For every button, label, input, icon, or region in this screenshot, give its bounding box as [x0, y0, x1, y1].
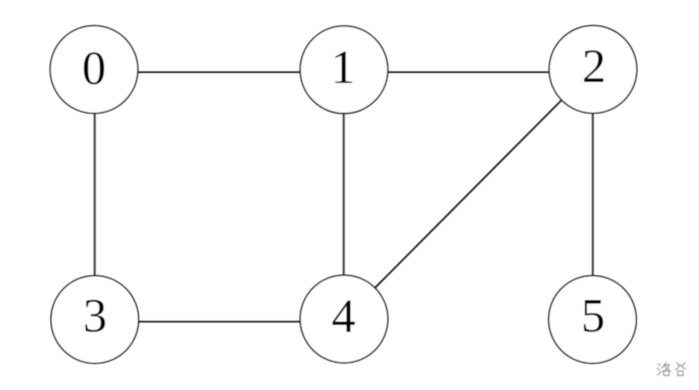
svg-text:5: 5 — [581, 290, 605, 343]
svg-text:0: 0 — [82, 42, 106, 95]
svg-text:3: 3 — [83, 290, 107, 343]
svg-text:2: 2 — [582, 40, 606, 93]
svg-text:1: 1 — [331, 41, 355, 94]
svg-text:4: 4 — [332, 290, 356, 343]
